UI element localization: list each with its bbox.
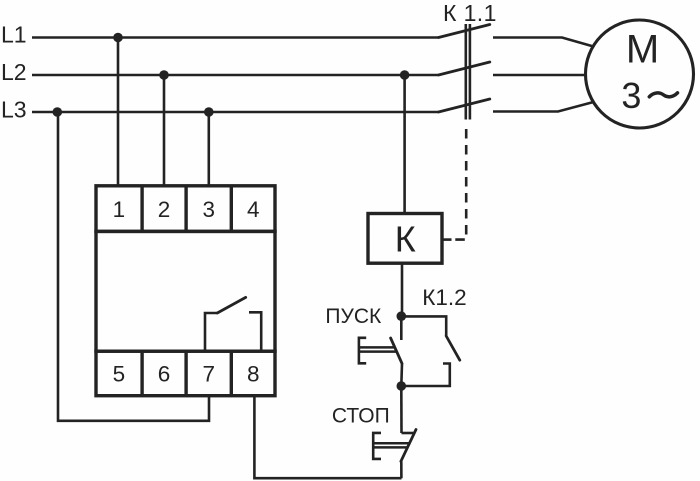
wire pole2 to motor xyxy=(493,74,586,77)
svg-text:8: 8 xyxy=(247,362,260,387)
start button actuator bracket xyxy=(359,338,366,364)
start button wire lower xyxy=(400,364,403,387)
relay bottom terminal block xyxy=(96,351,275,396)
junction start branch top xyxy=(397,311,407,321)
relay module body xyxy=(96,231,275,351)
svg-text:К1.2: К1.2 xyxy=(422,285,466,310)
svg-text:К 1.1: К 1.1 xyxy=(443,0,497,26)
wire pin 8 down xyxy=(254,395,401,478)
wire pole3 to motor xyxy=(493,102,594,112)
contactor K1.1 pole 3 blade xyxy=(439,99,490,112)
junction L3 left branch xyxy=(53,107,63,117)
contact K1.2 blade xyxy=(446,336,460,360)
svg-text:ПУСК: ПУСК xyxy=(325,305,382,328)
start button blade xyxy=(391,338,402,364)
relay top terminal block xyxy=(96,186,275,232)
svg-text:L2: L2 xyxy=(1,59,27,85)
wire L3 to pin 7 (left path) xyxy=(58,112,209,421)
wire pole1 to motor xyxy=(493,38,594,47)
junction start branch bottom xyxy=(397,381,407,391)
svg-text:6: 6 xyxy=(158,362,171,387)
svg-text:СТОП: СТОП xyxy=(332,405,390,428)
svg-text:3: 3 xyxy=(203,197,216,222)
wire L1 to pin 1 xyxy=(117,38,120,187)
svg-text:2: 2 xyxy=(158,197,171,222)
contactor K1.1 mechanical link bars xyxy=(466,24,470,120)
svg-text:7: 7 xyxy=(203,362,216,387)
svg-text:3: 3 xyxy=(621,75,641,116)
wire L2 to pin 2 xyxy=(163,75,166,186)
svg-text:L3: L3 xyxy=(1,97,27,123)
svg-text:L1: L1 xyxy=(1,22,27,48)
contactor K1.1 pole 1 blade xyxy=(439,25,490,38)
svg-text:М: М xyxy=(626,27,659,71)
motor M circle xyxy=(586,20,694,128)
svg-text:К: К xyxy=(395,219,416,260)
wire L1 bus xyxy=(32,36,439,39)
stop button actuator bracket xyxy=(373,433,381,459)
contact K1.2 upper wire xyxy=(401,316,446,336)
stop button wire upper xyxy=(400,386,403,433)
stop button fixed tick xyxy=(402,432,414,435)
internal relay contact (pins 7-8) xyxy=(205,297,261,351)
junction L3 to pin 3 xyxy=(204,107,214,117)
wire L2 bus xyxy=(32,74,439,77)
motor label ~ xyxy=(649,93,677,97)
wire L2 to coil K xyxy=(403,75,406,214)
contactor K1.1 linkage to coil (dashed) xyxy=(442,129,466,240)
start button actuator link xyxy=(359,347,397,351)
svg-text:1: 1 xyxy=(113,197,126,222)
wire L3 to pin 3 xyxy=(208,112,211,186)
coil K box xyxy=(368,214,442,264)
stop button blade xyxy=(401,430,416,462)
contact K1.2 lower wire xyxy=(401,364,450,387)
contactor K1.1 pole 2 blade xyxy=(439,62,490,75)
svg-text:5: 5 xyxy=(113,362,126,387)
svg-text:4: 4 xyxy=(247,197,260,222)
junction L1 to pin 1 xyxy=(113,33,123,43)
wire L3 bus xyxy=(32,111,439,114)
wire coil K to start branch xyxy=(401,263,404,316)
stop button actuator link xyxy=(373,443,409,447)
junction L2 to coil xyxy=(400,70,410,80)
start button wire upper xyxy=(400,316,403,340)
stop button wire lower xyxy=(400,461,403,478)
junction L2 to pin 2 xyxy=(159,70,169,80)
